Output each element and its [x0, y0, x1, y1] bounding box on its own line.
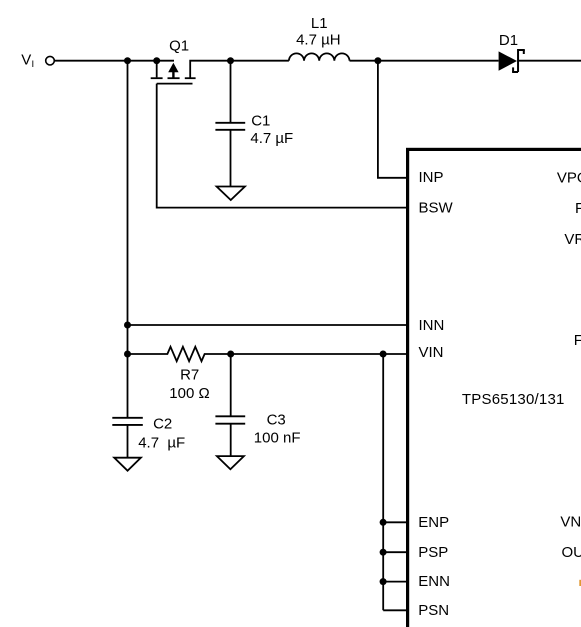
svg-text:I: I: [32, 59, 35, 70]
svg-text:C1: C1: [251, 113, 270, 130]
svg-text:F: F: [574, 332, 581, 349]
svg-text:C3: C3: [267, 412, 286, 429]
svg-text:4.7 µF: 4.7 µF: [138, 434, 185, 451]
svg-text:PSP: PSP: [418, 544, 448, 561]
svg-text:TPS65130/131: TPS65130/131: [462, 391, 565, 408]
svg-text:F: F: [575, 200, 581, 217]
svg-text:VN: VN: [560, 514, 581, 531]
svg-text:VPO: VPO: [557, 169, 581, 186]
svg-text:V: V: [21, 52, 31, 69]
svg-text:OU: OU: [562, 544, 581, 561]
svg-text:R7: R7: [180, 366, 199, 383]
svg-text:D1: D1: [499, 32, 518, 49]
svg-text:VR: VR: [564, 231, 581, 248]
svg-text:ENP: ENP: [418, 514, 449, 531]
svg-text:ENN: ENN: [418, 573, 450, 590]
svg-text:INN: INN: [419, 317, 445, 334]
svg-text:VIN: VIN: [419, 344, 444, 361]
svg-text:100 Ω: 100 Ω: [169, 385, 209, 402]
svg-text:4.7 µF: 4.7 µF: [250, 130, 293, 147]
svg-text:BSW: BSW: [419, 200, 454, 217]
svg-text:100 nF: 100 nF: [254, 430, 301, 447]
svg-text:4.7 µH: 4.7 µH: [296, 32, 341, 49]
svg-text:PSN: PSN: [418, 602, 449, 619]
svg-text:C2: C2: [153, 416, 172, 433]
svg-text:Q1: Q1: [169, 38, 189, 55]
svg-text:L1: L1: [311, 15, 328, 32]
svg-text:INP: INP: [419, 169, 444, 186]
